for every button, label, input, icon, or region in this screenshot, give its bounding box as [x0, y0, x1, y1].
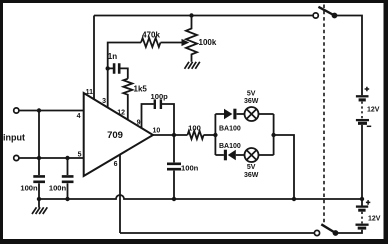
- wire output to 100n: [173, 135, 175, 199]
- wire bottom branch leads: [215, 154, 273, 156]
- svg-text:1n: 1n: [108, 52, 117, 61]
- ground below pot: [185, 62, 200, 69]
- wire 100 to lamp network: [204, 134, 216, 136]
- junction input 1: [37, 108, 41, 112]
- svg-text:10: 10: [153, 128, 161, 135]
- battery B1 12V plates: [356, 95, 369, 97]
- svg-text:BA100: BA100: [219, 143, 241, 150]
- capacitor 100n output plates: [167, 164, 181, 169]
- resistor 1k5: [123, 79, 132, 120]
- svg-text:6: 6: [114, 161, 118, 168]
- svg-text:3: 3: [102, 98, 106, 105]
- svg-text:input: input: [3, 132, 25, 142]
- switch S2 bottom: [314, 230, 319, 235]
- svg-text:470k: 470k: [142, 30, 160, 39]
- junction 100n bottom: [172, 197, 176, 201]
- switch S1 top: [313, 13, 318, 18]
- battery B2 12V plates: [356, 205, 368, 207]
- capacitor 1n leads: [108, 68, 128, 78]
- wire input 2 to pin 5: [19, 157, 84, 159]
- junction battery B2 plus: [360, 197, 364, 201]
- plus sign battery B2: [366, 200, 370, 205]
- junction input 2 a: [37, 156, 41, 160]
- svg-text:4: 4: [77, 113, 81, 120]
- junction ground rail b: [65, 197, 69, 201]
- wire input 1 to pin 4: [19, 110, 84, 112]
- wire output pin 10: [153, 134, 188, 136]
- svg-text:5V: 5V: [247, 164, 256, 171]
- junction lamp return: [292, 197, 296, 201]
- diode D1 BA100: [224, 109, 232, 120]
- junction lamp right: [271, 133, 275, 137]
- capacitor 100p plates: [155, 99, 161, 109]
- svg-text:12: 12: [117, 110, 125, 117]
- wire top branch leads: [215, 113, 273, 115]
- potentiometer 100k body: [186, 16, 197, 62]
- junction output node: [172, 133, 176, 137]
- plus sign battery B1: [365, 87, 370, 92]
- op-amp 709 triangle: [84, 93, 153, 176]
- junction 1n tap: [106, 66, 110, 70]
- wire battery B1 minus to junction: [361, 125, 363, 206]
- svg-text:36W: 36W: [244, 172, 259, 179]
- svg-text:BA100: BA100: [219, 126, 241, 133]
- junction input 2 b: [65, 156, 69, 160]
- svg-text:11: 11: [86, 89, 94, 96]
- junction lamp left: [213, 133, 217, 137]
- wire 470k to pot wiper: [161, 42, 182, 44]
- capacitor C1 100n: [38, 158, 40, 199]
- resistor 470k: [141, 38, 160, 47]
- capacitor 100p loop pin 9 to output: [142, 104, 175, 135]
- svg-text:5V: 5V: [247, 91, 256, 98]
- svg-text:100p: 100p: [151, 92, 169, 101]
- input terminal 2: [14, 155, 19, 160]
- wire bottom ground rail with hop over pin6 wire: [39, 195, 362, 199]
- minus sign battery B1: [367, 125, 371, 127]
- capacitor C2 100n: [67, 158, 69, 199]
- dashed partition line: [323, 5, 325, 227]
- svg-text:100k: 100k: [199, 38, 217, 47]
- svg-text:100: 100: [188, 124, 201, 133]
- wire switch S1 to battery top corner: [335, 16, 363, 96]
- lamp network left vertical: [214, 114, 216, 155]
- wire bottom switch to battery: [336, 230, 363, 233]
- wire pin 6 down to bottom switch: [120, 155, 314, 233]
- junction pot top: [189, 13, 193, 17]
- input terminal 1: [14, 108, 19, 113]
- svg-text:1k5: 1k5: [134, 85, 148, 94]
- svg-text:100n: 100n: [49, 183, 67, 192]
- ground symbol left: [38, 199, 40, 208]
- wire lamp network to ground rail: [274, 135, 294, 199]
- resistor 100: [188, 131, 204, 139]
- lamp network right vertical: [273, 114, 275, 155]
- svg-text:5: 5: [78, 152, 82, 159]
- wiper arrow of pot: [182, 39, 190, 46]
- wire top supply rail: [94, 15, 313, 17]
- svg-text:100n: 100n: [20, 183, 38, 192]
- svg-text:9: 9: [137, 120, 141, 127]
- svg-text:100n: 100n: [181, 164, 199, 173]
- svg-text:36W: 36W: [244, 98, 259, 105]
- wire joining input lines: [38, 111, 40, 159]
- wire pin 3 vertical and 470k feed: [108, 43, 141, 108]
- capacitor 1n plates: [114, 63, 119, 73]
- svg-text:12V: 12V: [368, 216, 381, 223]
- lamp LP1 5V 36W: [245, 107, 259, 121]
- svg-text:12V: 12V: [367, 107, 380, 114]
- svg-text:709: 709: [107, 130, 123, 141]
- junction ground rail a: [37, 197, 41, 201]
- lamp LP2 5V 36W: [245, 148, 259, 162]
- wire pin 11 drop from top rail: [93, 16, 95, 100]
- diode D2 BA100: [228, 150, 236, 161]
